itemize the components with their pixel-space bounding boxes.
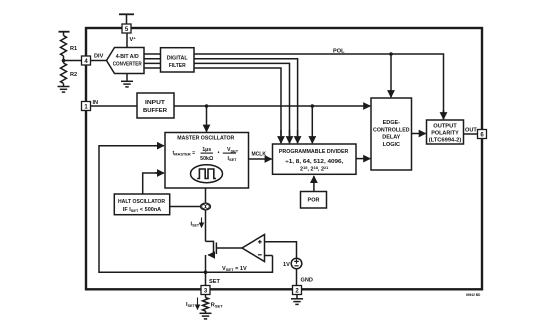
svg-text:(LTC6994-2): (LTC6994-2) <box>429 138 462 144</box>
svg-text:R1: R1 <box>70 46 77 52</box>
svg-text:RSET: RSET <box>211 303 223 309</box>
svg-text:OUT: OUT <box>465 127 477 133</box>
svg-text:HALT OSCILLATOR: HALT OSCILLATOR <box>118 199 165 205</box>
svg-text:INPUT: INPUT <box>145 100 166 106</box>
svg-text:tMASTER =: tMASTER = <box>173 151 196 157</box>
svg-text:EDGE-: EDGE- <box>383 120 401 126</box>
svg-text:69942 BD: 69942 BD <box>466 293 481 297</box>
svg-text:PROGRAMMABLE DIVIDER: PROGRAMMABLE DIVIDER <box>279 149 349 155</box>
svg-text:CONVERTER: CONVERTER <box>113 61 142 67</box>
svg-text:FILTER: FILTER <box>169 63 186 69</box>
svg-text:SET: SET <box>209 279 220 285</box>
svg-text:POLARITY: POLARITY <box>431 131 459 137</box>
svg-text:4-BIT A/D: 4-BIT A/D <box>116 54 139 60</box>
svg-text:ISET: ISET <box>186 302 195 308</box>
svg-text:GND: GND <box>301 278 313 284</box>
svg-text:1V: 1V <box>283 262 290 268</box>
svg-text:CONTROLLED: CONTROLLED <box>373 127 410 133</box>
svg-text:POR: POR <box>308 197 320 203</box>
svg-text:VSET = 1V: VSET = 1V <box>222 266 247 272</box>
svg-text:DIGITAL: DIGITAL <box>167 56 189 62</box>
svg-text:1µs: 1µs <box>202 147 211 153</box>
svg-text:OUTPUT: OUTPUT <box>433 124 457 130</box>
svg-text:DELAY: DELAY <box>382 135 400 141</box>
svg-text:BUFFER: BUFFER <box>143 108 167 114</box>
svg-text:MCLK: MCLK <box>252 152 267 158</box>
svg-text:R2: R2 <box>70 72 77 78</box>
svg-text:LOGIC: LOGIC <box>383 142 400 148</box>
svg-text:VSET: VSET <box>227 147 239 153</box>
svg-text:50kΩ: 50kΩ <box>200 156 214 162</box>
svg-text:ISET: ISET <box>191 221 200 227</box>
svg-text:V+: V+ <box>130 36 137 44</box>
svg-text:POL: POL <box>333 48 345 54</box>
svg-text:215, 218, 221: 215, 218, 221 <box>300 165 329 173</box>
svg-text:MASTER OSCILLATOR: MASTER OSCILLATOR <box>177 136 234 142</box>
svg-text:IF ISET < 500nA: IF ISET < 500nA <box>123 207 161 213</box>
svg-text:IN: IN <box>93 100 99 106</box>
svg-text:ISET: ISET <box>228 156 238 162</box>
svg-text:DIV: DIV <box>94 54 104 60</box>
svg-text:•: • <box>218 150 220 156</box>
